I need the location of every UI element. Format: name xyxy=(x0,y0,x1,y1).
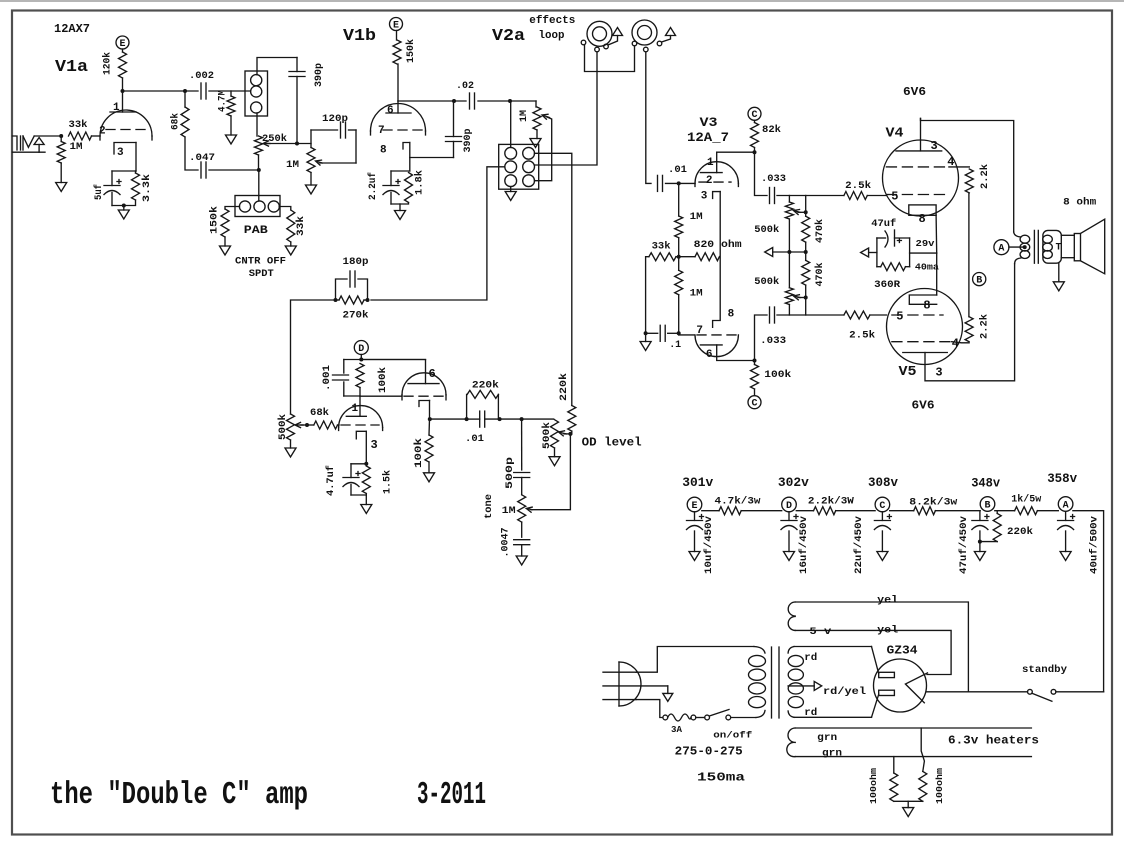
wire send into J2 TL xyxy=(510,101,512,147)
svg-text:100ohm: 100ohm xyxy=(935,767,945,804)
5uf lower lead xyxy=(111,193,113,206)
svg-text:150k: 150k xyxy=(405,39,417,63)
svg-text:33k: 33k xyxy=(69,119,88,131)
node tone tap xyxy=(520,417,524,421)
node E supply at V1b xyxy=(390,18,403,31)
svg-text:100ohm: 100ohm xyxy=(869,767,879,804)
PT secondary top corner xyxy=(788,647,794,654)
1M loop wiper arrow xyxy=(542,114,548,119)
40uf/500v cap lead xyxy=(1065,512,1067,521)
svg-text:3: 3 xyxy=(931,139,938,153)
33k V3 left lead xyxy=(646,257,649,334)
220k bleeder top lead xyxy=(996,511,998,514)
connector J2 pin 2 xyxy=(523,147,535,159)
5v bottom yel wire xyxy=(795,630,951,674)
resistor 100ohm left xyxy=(890,773,898,801)
wire J1 bottom pin to 250k xyxy=(256,113,258,136)
16uf/450v cap lower lead xyxy=(788,531,790,552)
500k upper bottom lead xyxy=(788,219,790,252)
500k lower bottom lead xyxy=(788,305,790,316)
svg-text:5: 5 xyxy=(891,190,898,204)
switch standby blade xyxy=(1032,693,1052,701)
AC plug prong hot xyxy=(603,671,636,673)
500k lower wiper xyxy=(794,295,800,300)
switch on/off blade xyxy=(709,710,729,717)
cathode box right side xyxy=(909,238,911,267)
.1 left lead xyxy=(646,332,658,334)
node 33k/.1 junction xyxy=(644,331,648,335)
node 270k left xyxy=(334,298,338,302)
resistor 1M bias upper xyxy=(675,216,683,238)
ground below 22uf/450v cap xyxy=(877,552,888,561)
potentiometer 500k lower xyxy=(785,288,793,305)
2.2uf upper lead xyxy=(390,171,392,186)
4.7uf lower lead xyxy=(350,485,352,496)
rail D-2.2k xyxy=(796,510,813,512)
V2b cathode RC top bar xyxy=(351,463,366,465)
plug hot to PT xyxy=(636,647,754,673)
resistor 820 ohm xyxy=(695,253,719,261)
.1 right lead xyxy=(668,332,679,334)
speaker driver frame xyxy=(1074,234,1080,261)
svg-text:2: 2 xyxy=(99,126,106,138)
svg-text:8: 8 xyxy=(380,145,387,157)
tube V1b envelope xyxy=(371,103,426,131)
svg-text:.1: .1 xyxy=(669,340,681,351)
node V2b plate supply xyxy=(359,358,363,362)
resistor 470k lower xyxy=(802,260,810,285)
svg-text:220k: 220k xyxy=(472,380,499,392)
tube V2a envelope xyxy=(402,373,446,395)
connector J1 body xyxy=(245,71,268,116)
svg-text:.047: .047 xyxy=(189,153,215,164)
OD wiper wire xyxy=(564,433,572,435)
svg-text:1M: 1M xyxy=(519,110,530,122)
node input grid junction xyxy=(59,134,63,138)
connector J2 body xyxy=(499,144,539,189)
node D supply at V2b xyxy=(354,341,368,355)
5v top yel wire xyxy=(795,602,968,692)
svg-text:3.3k: 3.3k xyxy=(141,174,153,202)
svg-text:.033: .033 xyxy=(761,174,786,185)
svg-text:A: A xyxy=(1063,500,1069,511)
page top hairline xyxy=(0,0,1124,2)
ground below OD level pot xyxy=(549,457,560,466)
resistor 150k V1b plate load xyxy=(393,40,401,64)
wiper to 470k line lower xyxy=(798,297,806,299)
wire OD node down to tone wiper xyxy=(531,434,570,510)
ground below 47uf/450v cap xyxy=(974,552,985,561)
input jack ground stub xyxy=(38,145,40,153)
.033 upper left lead xyxy=(755,152,768,195)
junction cathode RC bottom xyxy=(122,204,126,208)
svg-text:C: C xyxy=(879,501,885,512)
resistor 4.7k/3w xyxy=(719,507,741,515)
resistor 1k/5w xyxy=(1015,507,1038,515)
cathode network ground arrow xyxy=(861,248,869,257)
V3b plate line xyxy=(700,344,722,346)
tube V3a envelope xyxy=(695,162,738,184)
node C supply lower xyxy=(748,396,761,409)
jack send lug left xyxy=(581,40,586,45)
tone wiper arrow xyxy=(526,507,532,512)
svg-text:470k: 470k xyxy=(814,263,826,287)
500k OD to ground xyxy=(554,448,556,457)
svg-text:D: D xyxy=(786,501,792,512)
820 left lead xyxy=(679,256,695,258)
capacitor .0047 xyxy=(514,539,530,541)
GZ34 output wire xyxy=(927,691,1028,693)
ground heater CT xyxy=(903,808,914,817)
2.2uf lower lead xyxy=(390,193,392,205)
svg-text:12A_7: 12A_7 xyxy=(687,130,729,145)
ground AC earth xyxy=(663,693,673,701)
svg-text:D: D xyxy=(358,344,364,355)
V5 screen lead xyxy=(952,342,969,343)
svg-text:47uf/450v: 47uf/450v xyxy=(958,516,970,574)
V5 plate line xyxy=(903,352,948,354)
resistor 270k feedback xyxy=(339,296,364,304)
V1b plate line xyxy=(386,112,411,114)
33k PAB to ground xyxy=(290,242,292,246)
resistor 33k grid stopper xyxy=(69,132,92,140)
resistor 2.5k lower xyxy=(844,311,870,319)
.033 lower right lead xyxy=(777,314,844,316)
wire 1M to ground xyxy=(60,136,62,142)
capacitor 40uf/500v xyxy=(1058,520,1074,522)
svg-text:6: 6 xyxy=(387,105,394,117)
AC plug body xyxy=(619,662,641,706)
V5 plate lead xyxy=(925,264,1015,381)
node V3 grid xyxy=(677,181,681,185)
capacitor .002 coupling xyxy=(200,83,202,99)
junction vertical 1M pot xyxy=(310,130,312,148)
capacitor 10uf/450v xyxy=(687,520,703,522)
resistor 1.8k cathode xyxy=(405,173,413,203)
1M pot wiper arrow xyxy=(316,160,322,165)
svg-text:120k: 120k xyxy=(102,52,114,75)
speaker horn xyxy=(1081,219,1105,274)
V2b cathode RC bottom bar xyxy=(351,494,366,496)
node upper wiper xyxy=(804,210,808,214)
390p fb upper lead xyxy=(453,101,455,137)
svg-text:yel: yel xyxy=(877,595,898,607)
V3b grid lead xyxy=(679,334,694,336)
svg-text:C: C xyxy=(751,399,757,410)
svg-text:loop: loop xyxy=(539,30,565,42)
16uf/450v cap lead xyxy=(788,512,790,521)
jack return lug left xyxy=(632,41,637,46)
node C supply upper xyxy=(748,107,761,120)
svg-text:1: 1 xyxy=(707,157,714,169)
10uf/450v cap lead xyxy=(694,512,696,521)
.033 lower left lead xyxy=(755,315,768,361)
6.3v bottom grn wire xyxy=(795,756,1031,758)
screen supply line xyxy=(968,193,970,317)
5v winding bumps xyxy=(788,602,795,630)
node V3a plate/82k xyxy=(753,150,757,154)
connector J2 pin 1 xyxy=(505,147,517,159)
rail 8.2k to B xyxy=(935,510,980,512)
node D rail xyxy=(782,497,797,512)
resistor 33k V3 xyxy=(649,253,676,261)
svg-text:33k: 33k xyxy=(295,216,307,236)
V3b plate lead xyxy=(717,345,755,361)
svg-text:12AX7: 12AX7 xyxy=(54,22,90,36)
node V3b plate xyxy=(753,359,757,363)
40uf/500v cap lower lead xyxy=(1065,531,1067,552)
ground V1a cathode xyxy=(118,210,129,219)
resistor 120k V1a plate load xyxy=(119,52,127,78)
rail A to standby drop xyxy=(1073,511,1104,692)
connector J1 pin 2 xyxy=(251,86,262,97)
svg-text:348v: 348v xyxy=(971,476,1000,491)
capacitor .02 xyxy=(469,93,471,109)
connector J2 pin 4 xyxy=(523,161,535,173)
svg-text:1: 1 xyxy=(113,102,120,114)
V4 screen dashed xyxy=(886,166,949,168)
wire J2 TR to OD send xyxy=(535,153,572,405)
wire J1 top pin up xyxy=(257,58,297,75)
svg-text:B: B xyxy=(984,500,990,511)
svg-text:1M: 1M xyxy=(690,289,703,300)
ground below V2a 100k xyxy=(424,473,435,482)
ground below 500k drive xyxy=(285,448,296,457)
V3a cathode bracket xyxy=(713,192,721,199)
OT secondary coil xyxy=(1043,235,1053,243)
100k V3b upper lead xyxy=(754,361,756,365)
tube GZ34 envelope xyxy=(874,659,927,712)
tube V3b envelope xyxy=(695,335,738,357)
100k cathode upper lead xyxy=(428,419,431,435)
resistor 100ohm right xyxy=(919,771,927,801)
V3b grid dashed xyxy=(697,334,736,336)
ground below speaker xyxy=(1053,282,1064,291)
loop pot bottom to arrow xyxy=(536,130,538,139)
svg-text:4: 4 xyxy=(952,337,959,351)
1M lower upper lead xyxy=(678,257,680,271)
wiper to 470k line upper xyxy=(798,211,806,213)
470k upper bottom lead xyxy=(805,242,807,252)
svg-text:1M: 1M xyxy=(502,506,516,517)
resistor 360R xyxy=(881,263,906,271)
svg-text:5: 5 xyxy=(896,310,903,324)
GZ34 plate 1 lead xyxy=(872,647,879,674)
potentiometer 1M V1b grid xyxy=(307,148,315,173)
jack send left lug wire xyxy=(585,45,635,72)
HV bottom rd wire xyxy=(794,716,872,718)
fuse to switch xyxy=(696,717,705,719)
svg-text:3-2011: 3-2011 xyxy=(417,778,486,813)
ground below 16uf/450v cap xyxy=(784,552,795,561)
E stub V1b xyxy=(396,31,398,41)
OT primary top corner xyxy=(1014,232,1021,237)
svg-text:301v: 301v xyxy=(682,475,713,490)
wire to 1M loop pot xyxy=(535,101,537,107)
svg-text:effects: effects xyxy=(529,15,575,27)
10uf/450v cap lower lead xyxy=(694,531,696,552)
capacitor 390p feedback xyxy=(446,136,462,138)
68k to V2b tube xyxy=(338,424,340,426)
390p fb lower lead xyxy=(453,142,455,158)
V1a cathode RC top bar xyxy=(112,170,136,172)
node 220k right xyxy=(498,417,502,421)
V1b cathode to 390p xyxy=(410,157,454,159)
jack send ground elbow xyxy=(608,36,618,46)
A to primary centre tap xyxy=(1009,246,1025,248)
capacitor 2.2uf cathode xyxy=(383,185,399,187)
V2b cathode bracket xyxy=(356,431,366,439)
node E supply at V1a plate xyxy=(116,36,129,49)
svg-text:33k: 33k xyxy=(652,241,671,253)
svg-text:390p: 390p xyxy=(314,63,325,87)
V4 cathode line down xyxy=(935,215,938,253)
svg-text:308v: 308v xyxy=(868,475,898,490)
rail C-8.2k xyxy=(890,510,914,512)
svg-text:SPDT: SPDT xyxy=(249,269,274,280)
junction 68k tap xyxy=(183,89,187,93)
svg-text:275-0-275: 275-0-275 xyxy=(675,745,743,759)
node A supply at OT xyxy=(994,240,1009,255)
heater CT stub xyxy=(907,801,909,807)
junction 390p wiper xyxy=(295,142,299,146)
plate RC bottom bar xyxy=(344,395,360,397)
resistor 68k xyxy=(181,107,189,137)
GZ34 plate 2 lead xyxy=(872,694,879,717)
input jack frame xyxy=(13,136,18,150)
resistor 68k V2b grid xyxy=(314,421,338,429)
svg-text:2.5k: 2.5k xyxy=(849,330,875,342)
heater tap left xyxy=(893,757,895,773)
svg-text:.01: .01 xyxy=(668,165,687,176)
capacitor .1 xyxy=(659,325,661,341)
V4 plate to OT xyxy=(921,118,1014,232)
resistor 220k parallel xyxy=(467,390,498,398)
ground below PAB 33k xyxy=(285,246,296,255)
standby to A rail xyxy=(1056,691,1104,693)
1M upper leads xyxy=(678,183,680,216)
svg-text:6.3v heaters: 6.3v heaters xyxy=(948,734,1039,748)
node .02 left xyxy=(452,99,456,103)
svg-text:7: 7 xyxy=(378,125,385,137)
470k lower top lead xyxy=(805,252,807,260)
wire jack to grid node xyxy=(34,135,61,137)
potentiometer 500k OD drive xyxy=(287,414,295,440)
svg-text:500k: 500k xyxy=(754,276,779,288)
V1b plate to .02 xyxy=(398,100,466,102)
svg-text:V2a: V2a xyxy=(492,27,525,46)
jack return outer xyxy=(632,20,657,45)
svg-text:B: B xyxy=(976,276,982,287)
potentiometer 250k volume xyxy=(255,136,263,155)
capacitor 47uf/450v xyxy=(972,520,988,522)
V1b cathode bracket xyxy=(403,143,410,150)
V1a cathode bracket xyxy=(114,143,136,155)
V4 plate line xyxy=(896,150,942,152)
OT primary bottom corner xyxy=(1015,258,1021,264)
svg-text:8: 8 xyxy=(923,299,930,313)
rail 1k to A xyxy=(1037,510,1058,512)
OT core xyxy=(1034,230,1038,263)
ground below 4.7M xyxy=(226,135,237,144)
svg-text:100k: 100k xyxy=(377,367,389,393)
GZ34 plate 2 xyxy=(879,690,895,695)
250k lower lead xyxy=(258,155,260,170)
250k wiper arrow xyxy=(263,141,269,146)
svg-text:1M: 1M xyxy=(286,160,299,171)
svg-text:1.8k: 1.8k xyxy=(414,170,426,195)
390p lower lead xyxy=(296,77,298,144)
node V2a cathode xyxy=(428,417,432,421)
capacitor 180p xyxy=(349,271,351,287)
node 220k left xyxy=(465,417,469,421)
feedback rail left xyxy=(291,300,336,414)
390p upper lead xyxy=(296,58,298,72)
svg-text:2.2uf: 2.2uf xyxy=(367,172,379,200)
resistor 470k upper xyxy=(802,216,810,242)
svg-text:6V6: 6V6 xyxy=(903,85,926,99)
HV centre tap wire xyxy=(788,685,814,687)
.001 lower lead xyxy=(343,382,345,396)
1M pot to ground xyxy=(310,173,312,186)
node B supply xyxy=(973,273,986,286)
rail B-1k xyxy=(995,510,1015,512)
svg-text:302v: 302v xyxy=(778,475,809,490)
C stub upper xyxy=(754,120,756,122)
150k to V1b plate xyxy=(397,64,399,101)
svg-text:358v: 358v xyxy=(1047,471,1077,486)
node mid 470k xyxy=(804,250,808,254)
potentiometer 1M tone xyxy=(518,495,526,522)
resistor 1M bias lower xyxy=(675,270,683,294)
cathode out wire xyxy=(430,418,467,420)
potentiometer 500k OD level xyxy=(551,420,559,448)
svg-text:CNTR OFF: CNTR OFF xyxy=(235,257,286,268)
svg-text:GZ34: GZ34 xyxy=(887,644,918,658)
svg-text:1: 1 xyxy=(352,403,359,415)
V2b grid dashed xyxy=(341,424,379,426)
500k drive to ground xyxy=(290,440,292,448)
connector PAB pin 2 xyxy=(254,201,265,212)
svg-text:4.7M: 4.7M xyxy=(218,90,229,112)
2.5k lower to V5 grid xyxy=(870,314,887,316)
svg-text:2: 2 xyxy=(706,175,713,187)
svg-text:.01: .01 xyxy=(465,434,484,445)
1M upper lower lead xyxy=(678,238,680,257)
6.3v winding bumps xyxy=(787,728,795,757)
svg-text:2.5k: 2.5k xyxy=(845,180,871,192)
capacitor 500p xyxy=(514,472,530,474)
connector PAB body xyxy=(235,196,280,217)
500k lower top lead xyxy=(788,252,790,288)
resistor 33k PAB xyxy=(287,210,295,242)
svg-text:82k: 82k xyxy=(762,124,781,136)
resistor 2.2k/3W xyxy=(814,507,836,515)
svg-text:180p: 180p xyxy=(343,257,369,268)
.01 V3 right lead xyxy=(666,182,696,184)
svg-text:22uf/450v: 22uf/450v xyxy=(853,516,865,574)
svg-text:68k: 68k xyxy=(170,113,182,130)
svg-text:470k: 470k xyxy=(814,219,826,243)
svg-text:1M: 1M xyxy=(70,142,83,153)
rail E-D xyxy=(702,510,719,512)
68k upper lead xyxy=(184,91,186,107)
stub J2 BL ground xyxy=(510,187,512,192)
connector J2 pin 3 xyxy=(505,161,517,173)
capacitor .047 xyxy=(200,162,202,178)
svg-text:500k: 500k xyxy=(541,422,553,449)
capacitor 4.7uf xyxy=(343,477,359,479)
